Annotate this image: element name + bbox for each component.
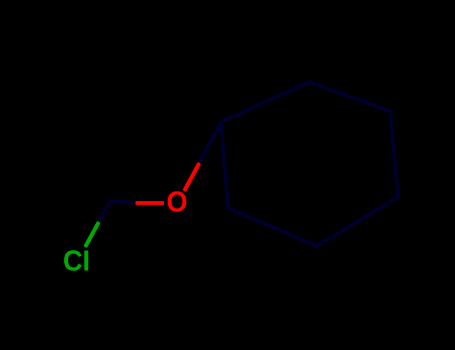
bond Cl-C2 navy stub <box>97 201 110 226</box>
svg-text:O: O <box>167 186 188 218</box>
bond C2-O red half (horizontal into O) <box>136 201 165 205</box>
benzene ring (dark navy hexagon) <box>221 82 398 246</box>
bond C2-O navy half (horizontal, from CH2 vertex) <box>110 201 136 203</box>
bond C1-ring A (navy half of O-ring bond) <box>198 122 221 165</box>
bond Cl-C2 (green half from Cl) <box>86 224 98 246</box>
svg-text:CI: CI <box>63 245 90 277</box>
bond O-ring (red half, diagonal) <box>185 165 199 190</box>
